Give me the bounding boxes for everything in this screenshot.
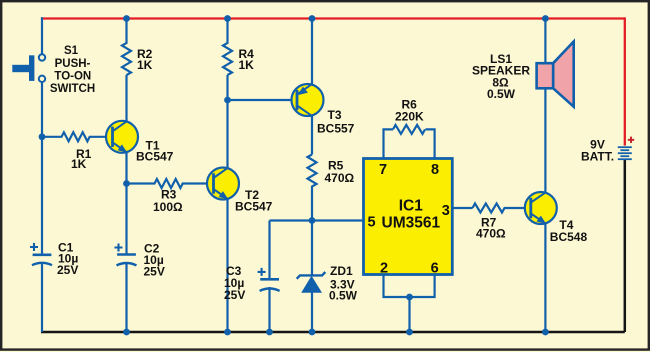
- wire: battery negative (right vertical black): [624, 159, 627, 332]
- node: red rail / R2 junction: [123, 15, 130, 22]
- wire: pin 2 / pin 6 bottom loop: [384, 275, 435, 298]
- wire: ZD1 node down to zener: [311, 221, 313, 276]
- node: ground rail / IC junction: [406, 329, 413, 336]
- svg-text:220K: 220K: [395, 110, 424, 124]
- resistor R2: [122, 19, 153, 76]
- wire: red rail to switch S1 top: [41, 17, 43, 54]
- svg-text:470Ω: 470Ω: [476, 227, 506, 241]
- svg-text:25V: 25V: [224, 288, 245, 302]
- speaker LS1: [472, 42, 574, 107]
- node: R4 / T2 collector / T3 base junction: [224, 97, 231, 104]
- svg-text:T3: T3: [328, 108, 342, 122]
- wire: pin 7 to R6: [384, 129, 394, 158]
- wire: red rail through speaker to T4 collector: [544, 19, 546, 193]
- node: ground rail / T2 emitter junction: [224, 329, 231, 336]
- node: T1 emitter / R3 / C2 junction: [123, 180, 130, 187]
- node: ground rail / C3 junction: [266, 329, 273, 336]
- wire: red battery feed (right vertical): [624, 17, 626, 145]
- wire: switch S1 bottom to C1 top: [41, 82, 43, 254]
- capacitor C3: [224, 264, 280, 302]
- svg-text:25V: 25V: [144, 265, 165, 279]
- node: red rail / speaker junction: [542, 15, 549, 22]
- resistor R3: [127, 179, 214, 214]
- wire: R4 bottom to T2 collector junction: [226, 75, 228, 100]
- node: R1 / C1 / switch junction: [39, 133, 46, 140]
- wire: T3 collector to R5: [311, 116, 313, 155]
- wire: T2 emitter to ground rail: [226, 199, 228, 332]
- svg-text:S1: S1: [64, 45, 79, 57]
- svg-text:1K: 1K: [71, 157, 87, 171]
- node: red rail / T3 emitter junction: [309, 15, 316, 22]
- resistor R1: [42, 132, 113, 171]
- svg-text:100Ω: 100Ω: [153, 200, 183, 214]
- transistor T3 BC557 (PNP): [292, 84, 355, 136]
- resistor R5: [308, 155, 355, 221]
- wire: junction down to T2 collector: [226, 100, 228, 169]
- wire: bottom loop to ground rail: [408, 297, 410, 332]
- node: bottom loop junction: [406, 294, 413, 301]
- pin 8: [431, 162, 439, 178]
- wire: T4 emitter to ground rail: [544, 223, 546, 332]
- wire: C1 bottom to ground rail: [41, 263, 43, 332]
- wire: ZD1 bottom to ground rail: [311, 292, 313, 332]
- svg-text:470Ω: 470Ω: [325, 171, 355, 185]
- pin 5: [367, 215, 375, 231]
- svg-text:TO-ON: TO-ON: [54, 70, 91, 82]
- svg-text:1K: 1K: [239, 58, 255, 72]
- transistor T1 BC547: [106, 121, 174, 164]
- svg-text:IC1: IC1: [399, 198, 424, 215]
- pin 2: [380, 261, 388, 277]
- svg-text:1K: 1K: [137, 58, 153, 72]
- pin 6: [431, 261, 439, 277]
- svg-text:0.5W: 0.5W: [329, 289, 358, 303]
- capacitor C2: [115, 242, 165, 279]
- resistor R7: [473, 204, 531, 241]
- transistor T2 BC547: [207, 168, 273, 214]
- wire: C2 bottom to ground rail: [125, 262, 127, 332]
- svg-text:BC557: BC557: [317, 122, 355, 136]
- capacitor C1: [30, 241, 78, 277]
- svg-text:2: 2: [380, 261, 388, 277]
- zener diode ZD1: [297, 264, 358, 303]
- wire: pin 3 to R7: [452, 207, 472, 209]
- node: ground rail / T4 emitter junction: [542, 329, 549, 336]
- svg-text:BATT.: BATT.: [581, 149, 614, 163]
- node: ground rail / C2 junction: [123, 329, 130, 336]
- svg-text:3: 3: [442, 203, 450, 219]
- svg-text:BC547: BC547: [136, 150, 174, 164]
- svg-text:UM3561: UM3561: [382, 215, 441, 232]
- wire: C3 to IC pin 5 (through ZD1 node): [270, 219, 364, 221]
- wire: R6 to pin 8: [426, 129, 435, 158]
- pin 3: [442, 203, 450, 219]
- resistor R6: [393, 97, 425, 134]
- wire: junction to T3 base: [228, 99, 297, 101]
- svg-text:25V: 25V: [57, 263, 78, 277]
- wire: +V rail (red, top): [41, 17, 625, 19]
- transistor T4 BC548: [525, 192, 588, 244]
- wire: C3 bottom to ground rail: [268, 287, 270, 332]
- resistor R4: [223, 19, 254, 76]
- node: R5 / ZD1 / C3 / pin5 junction: [309, 217, 316, 224]
- svg-text:0.5W: 0.5W: [487, 87, 516, 101]
- svg-text:7: 7: [379, 162, 387, 178]
- svg-text:6: 6: [431, 261, 439, 277]
- svg-text:BC547: BC547: [235, 200, 273, 214]
- wire: R2 bottom to T1 collector: [125, 75, 127, 122]
- svg-text:ZD1: ZD1: [330, 264, 353, 278]
- switch S1: [12, 45, 95, 95]
- svg-text:PUSH-: PUSH-: [55, 58, 91, 70]
- IC U1: IC1 UM3561: [364, 159, 453, 275]
- wire: ground rail (black, bottom): [41, 331, 625, 334]
- wire: pin5 wire down to C3 top: [268, 221, 270, 279]
- battery BT1 9V: [581, 137, 634, 164]
- svg-text:SWITCH: SWITCH: [50, 83, 95, 95]
- svg-text:5: 5: [367, 215, 375, 231]
- svg-text:BC548: BC548: [550, 230, 588, 244]
- pin 7: [379, 162, 387, 178]
- svg-text:8: 8: [431, 162, 439, 178]
- wire: red rail to T3 emitter: [311, 19, 313, 85]
- node: red rail / R4 junction: [224, 15, 231, 22]
- wire: T1 emitter to C2 / R3 junction: [125, 152, 127, 254]
- node: ground rail / ZD1 junction: [309, 329, 316, 336]
